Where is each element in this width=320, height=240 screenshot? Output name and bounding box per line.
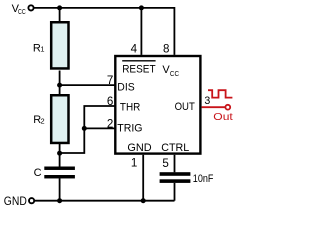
wire C bottom lead xyxy=(59,178,61,200)
label R2 xyxy=(33,114,44,126)
terminal GND xyxy=(29,198,34,203)
node pin1 / ground rail xyxy=(141,198,146,203)
svg-text:1: 1 xyxy=(40,45,44,54)
wire R2 bottom lead xyxy=(59,143,61,153)
label R1 xyxy=(33,42,45,54)
wire C top lead xyxy=(59,153,61,166)
wire pin 4 xyxy=(140,8,142,55)
svg-text:CC: CC xyxy=(170,69,179,78)
wire pin 1 (GND) xyxy=(142,155,144,201)
terminal Vcc xyxy=(28,5,33,10)
pin label Vcc (IC) xyxy=(162,64,179,78)
svg-text:OUT: OUT xyxy=(175,101,195,113)
resistor R1 xyxy=(51,22,68,68)
pin label RESET (with overline) xyxy=(122,61,156,76)
svg-text:RESET: RESET xyxy=(122,63,156,75)
node pin4 branch xyxy=(139,5,144,10)
node TRIG tap xyxy=(82,126,87,131)
svg-text:THR: THR xyxy=(120,102,140,114)
wire ground rail xyxy=(35,200,175,202)
wire pin 5 lower lead xyxy=(174,183,176,201)
node C / ground rail xyxy=(57,198,62,203)
svg-text:6: 6 xyxy=(107,95,113,108)
capacitor C2 10nF xyxy=(160,172,191,183)
svg-text:Out: Out xyxy=(213,111,233,123)
svg-text:2: 2 xyxy=(41,116,45,125)
svg-text:5: 5 xyxy=(162,157,168,170)
svg-text:8: 8 xyxy=(163,42,169,55)
svg-text:GND: GND xyxy=(127,142,151,154)
wire THR/TRIG link xyxy=(60,106,116,153)
node R1 top xyxy=(57,5,62,10)
svg-text:3: 3 xyxy=(204,95,210,107)
svg-text:C: C xyxy=(34,167,42,179)
wire DIS (pin 7) xyxy=(60,84,116,86)
svg-text:GND: GND xyxy=(4,194,27,208)
node THR/TRIG junction (R2 bottom) xyxy=(57,151,62,156)
node DIS junction xyxy=(57,83,62,88)
wire R1 bottom lead xyxy=(59,71,61,86)
svg-text:4: 4 xyxy=(131,42,138,55)
svg-text:TRIG: TRIG xyxy=(117,123,142,135)
svg-text:2: 2 xyxy=(107,117,113,130)
capacitor C xyxy=(44,167,75,179)
square wave symbol xyxy=(208,90,232,97)
wire pin 5 upper lead xyxy=(174,155,176,173)
op-amp U1 555 timer body xyxy=(115,56,200,154)
wire Vcc rail to pin 8 xyxy=(34,8,175,55)
label Vcc (supply) xyxy=(12,3,26,16)
wire R2 top lead xyxy=(59,85,61,95)
wire OUT (pin 3, red) xyxy=(202,106,226,108)
svg-text:CC: CC xyxy=(18,7,26,16)
svg-text:7: 7 xyxy=(107,74,113,87)
svg-text:1: 1 xyxy=(131,157,137,170)
svg-text:DIS: DIS xyxy=(117,81,134,93)
terminal Out (red) xyxy=(225,105,230,110)
svg-text:CTRL: CTRL xyxy=(161,142,189,154)
resistor R2 xyxy=(51,95,68,143)
wire R1 top lead xyxy=(59,8,61,22)
svg-text:10nF: 10nF xyxy=(193,173,214,185)
